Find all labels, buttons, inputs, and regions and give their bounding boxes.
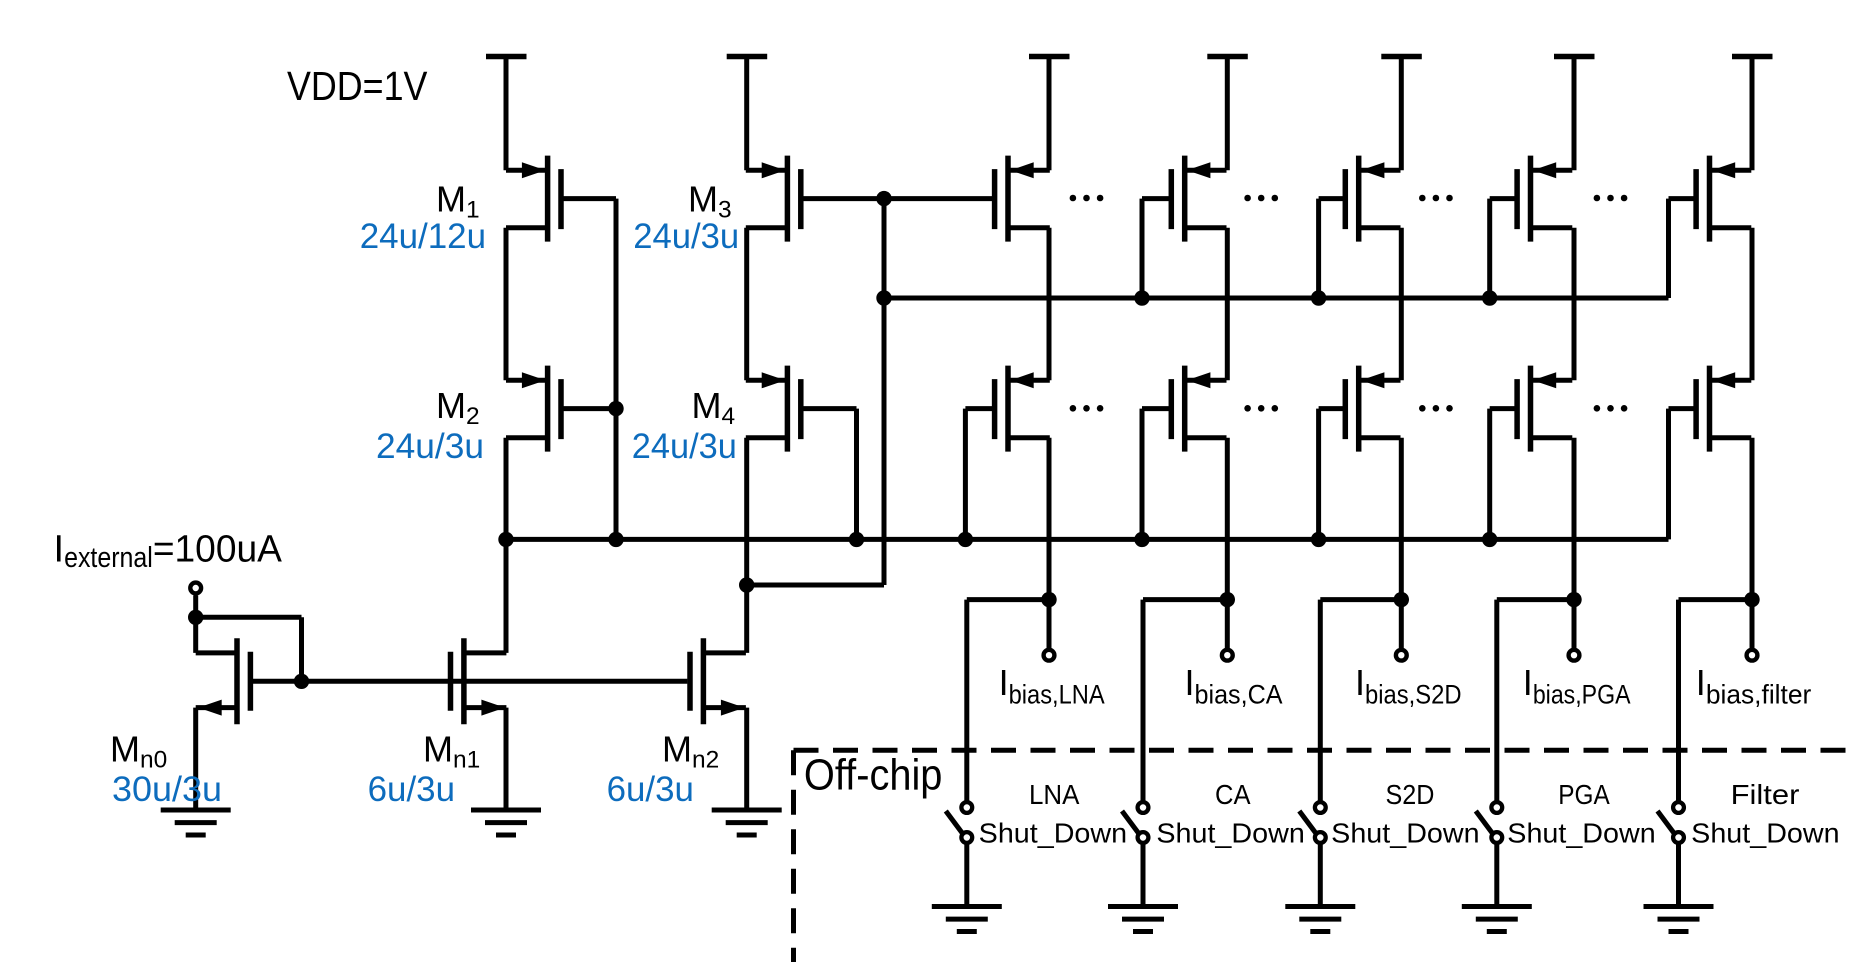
transistor PMOS cascode, branch filter xyxy=(1696,366,1751,452)
wire Mn1 source to ground xyxy=(504,708,509,810)
wire cascode gate stub branch PGA xyxy=(1487,409,1492,540)
wire M2 drain down to bias bus and Mn1 drain (x=506) xyxy=(504,438,509,653)
junction M2 drain on bias bus xyxy=(498,532,513,547)
svg-text:24u/3u: 24u/3u xyxy=(632,427,737,466)
transistor M3 (PMOS 24u/3u) xyxy=(746,156,801,242)
wire top mirror drain to cascode source branch LNA xyxy=(1047,228,1052,380)
svg-text:Shut_Down: Shut_Down xyxy=(1691,818,1839,849)
svg-text:24u/3u: 24u/3u xyxy=(633,217,739,256)
wire M4 gate to right xyxy=(803,406,857,411)
junction Iexternal node xyxy=(188,610,203,625)
wire Iexternal down to Mn0 drain xyxy=(193,595,198,653)
wire gate stub top mirror branch PGA xyxy=(1487,199,1492,298)
junction M4 drain / Mn2 drain node xyxy=(739,577,754,592)
transistor PMOS mirror top, branch PGA xyxy=(1517,156,1572,242)
wire M1/M2 gate drop (x=616) xyxy=(614,199,619,540)
wire cascode gate bias bus (y=539) xyxy=(506,537,1669,542)
junction output node branch S2D xyxy=(1394,592,1409,607)
wire top mirror drain to cascode source branch filter xyxy=(1750,228,1755,380)
terminal Ibias,PGA output pin xyxy=(1569,650,1580,661)
wire Iexternal node to gate drop xyxy=(196,615,302,620)
ellipsis dots cascode row group 3 xyxy=(1419,405,1453,412)
power VDD rail branch LNA xyxy=(1029,57,1070,171)
transistor M1 (PMOS 24u/12u) xyxy=(506,156,561,242)
wire top mirror drain to cascode source branch S2D xyxy=(1399,228,1404,380)
wire Mn0 source to ground xyxy=(193,708,198,810)
wire cascode gate lead branch PGA xyxy=(1490,406,1519,411)
transistor M4 (PMOS 24u/3u) xyxy=(746,366,801,452)
power VDD rail branch S2D xyxy=(1381,57,1422,171)
wire cascode gate stub branch filter xyxy=(1666,409,1671,540)
transistor PMOS mirror top, branch S2D xyxy=(1345,156,1400,242)
power VDD rail branch CA xyxy=(1207,57,1248,171)
switch Shut_Down branch filter xyxy=(1658,600,1684,907)
junction output node branch PGA xyxy=(1566,592,1581,607)
transistor Mn0 (NMOS 30u/3u) xyxy=(196,638,251,724)
transistor PMOS mirror top, branch CA xyxy=(1171,156,1226,242)
power VDD rail for M1 xyxy=(486,57,527,171)
junction cascode gate stub branch PGA on bias bus xyxy=(1482,532,1497,547)
wire M4 gate drop (x=856.5) xyxy=(854,409,859,540)
junction gate stub branch S2D on top bus xyxy=(1311,290,1326,305)
wire top mirror drain to cascode source branch PGA xyxy=(1572,228,1577,380)
wire M3 gate to first mirror gate (y=199) xyxy=(803,196,993,201)
wire cascode drain down to output branch LNA xyxy=(1047,438,1052,648)
wire top mirror gate lead branch CA xyxy=(1142,196,1173,201)
ground switch branch PGA xyxy=(1462,907,1532,932)
svg-text:Shut_Down: Shut_Down xyxy=(1507,818,1655,849)
wire cascode drain down to output branch S2D xyxy=(1399,438,1404,648)
ellipsis dots cascode row group 1 xyxy=(1070,405,1104,412)
svg-text:Off-chip: Off-chip xyxy=(804,751,943,800)
wire M4 drain down to Mn2 drain (x=747) xyxy=(744,438,749,653)
switch Shut_Down branch PGA xyxy=(1476,600,1502,907)
wire gate stub top mirror branch filter (bus end) xyxy=(1666,199,1671,298)
wire cascode drain down to output branch CA xyxy=(1225,438,1230,648)
svg-text:VDD=1V: VDD=1V xyxy=(287,63,428,109)
ellipsis dots top row group 2 xyxy=(1244,195,1278,202)
transistor PMOS mirror top, branch filter xyxy=(1696,156,1751,242)
ellipsis dots cascode row group 2 xyxy=(1244,405,1278,412)
transistor PMOS mirror top, branch LNA xyxy=(995,156,1050,242)
junction cascode gate stub branch LNA on bias bus xyxy=(958,532,973,547)
svg-text:Shut_Down: Shut_Down xyxy=(979,818,1127,849)
transistor PMOS cascode, branch LNA xyxy=(995,366,1050,452)
transistor PMOS cascode, branch CA xyxy=(1171,366,1226,452)
wire top mirror gate bus (y=298) xyxy=(884,296,1669,301)
wire output node to switch branch S2D xyxy=(1320,597,1401,602)
power VDD rail for M3 xyxy=(727,57,768,171)
svg-text:CA: CA xyxy=(1215,779,1251,810)
junction top mirror gate bus start xyxy=(876,290,891,305)
ground switch branch S2D xyxy=(1285,907,1355,932)
wire M3 drain to M4 source (x=747) xyxy=(744,228,749,380)
wire cascode gate stub branch LNA xyxy=(963,409,968,540)
wire cascode gate lead branch filter xyxy=(1669,406,1699,411)
svg-text:Shut_Down: Shut_Down xyxy=(1331,818,1479,849)
ellipsis dots top row group 4 xyxy=(1594,195,1628,202)
wire cascode gate stub branch CA xyxy=(1140,409,1145,540)
wire cascode drain down to output branch filter xyxy=(1750,438,1755,648)
transistor M2 (PMOS 24u/3u) xyxy=(506,366,561,452)
wire NMOS mirror gate bus (y=681) xyxy=(253,679,687,684)
transistor PMOS cascode, branch S2D xyxy=(1345,366,1400,452)
ground Mn0 xyxy=(161,810,231,835)
switch Shut_Down branch CA xyxy=(1122,600,1148,907)
wire cascode gate lead branch LNA xyxy=(965,406,996,411)
wire top mirror gate lead branch PGA xyxy=(1490,196,1519,201)
switch Shut_Down branch S2D xyxy=(1299,600,1325,907)
wire M1 drain to M2 source (x=506) xyxy=(504,228,509,380)
junction gate stub branch CA on top bus xyxy=(1134,290,1149,305)
wire top mirror gate lead branch S2D xyxy=(1319,196,1348,201)
wire Mn0 diode connection drop (x=301.5) xyxy=(299,617,304,681)
dashed off-chip boundary vertical xyxy=(791,750,796,962)
junction cascode gate stub branch CA on bias bus xyxy=(1134,532,1149,547)
dashed off-chip boundary horizontal xyxy=(794,748,1858,753)
junction Mn0 gate node xyxy=(294,674,309,689)
transistor PMOS cascode, branch PGA xyxy=(1517,366,1572,452)
wire output node to switch branch PGA xyxy=(1497,597,1574,602)
junction gate drop on bias bus xyxy=(608,532,623,547)
svg-text:6u/3u: 6u/3u xyxy=(607,770,694,809)
junction M4 gate on bias bus xyxy=(849,532,864,547)
ground switch branch LNA xyxy=(932,907,1002,932)
ellipsis dots cascode row group 4 xyxy=(1594,405,1628,412)
svg-text:24u/12u: 24u/12u xyxy=(360,217,486,256)
terminal Iexternal input pin xyxy=(190,583,201,594)
power VDD rail branch PGA xyxy=(1554,57,1595,171)
svg-text:6u/3u: 6u/3u xyxy=(368,770,455,809)
ground switch branch CA xyxy=(1108,907,1178,932)
junction M3 gate node xyxy=(876,191,891,206)
terminal Ibias,CA output pin xyxy=(1222,650,1233,661)
switch Shut_Down branch LNA xyxy=(946,600,972,907)
terminal Ibias,filter output pin xyxy=(1747,650,1758,661)
wire M4 drain node to gate drop (y=585) xyxy=(747,583,884,588)
wire gate stub top mirror branch CA xyxy=(1140,199,1145,298)
junction cascode gate stub branch S2D on bias bus xyxy=(1311,532,1326,547)
wire output node to switch branch CA xyxy=(1143,597,1227,602)
junction output node branch LNA xyxy=(1041,592,1056,607)
svg-text:S2D: S2D xyxy=(1386,779,1435,810)
svg-text:Shut_Down: Shut_Down xyxy=(1156,818,1304,849)
wire gate stub top mirror branch S2D xyxy=(1316,199,1321,298)
wire M2 gate to junction xyxy=(561,406,616,411)
ellipsis dots top row group 1 xyxy=(1070,195,1104,202)
wire cascode gate lead branch S2D xyxy=(1319,406,1348,411)
wire M3 gate node drop (x=884) xyxy=(882,199,887,585)
wire output node to switch branch filter xyxy=(1679,597,1753,602)
power VDD rail branch filter xyxy=(1732,57,1773,171)
wire Mn2 source to ground xyxy=(744,708,749,810)
svg-text:PGA: PGA xyxy=(1558,779,1610,810)
junction output node branch CA xyxy=(1220,592,1235,607)
wire output node to switch branch LNA xyxy=(967,597,1049,602)
wire cascode drain down to output branch PGA xyxy=(1572,438,1577,648)
svg-text:LNA: LNA xyxy=(1029,779,1080,810)
wire M1 gate to right xyxy=(561,196,616,201)
transistor Mn2 (NMOS 6u/3u) xyxy=(690,638,746,724)
junction gate stub branch PGA on top bus xyxy=(1482,290,1497,305)
ground Mn2 xyxy=(712,810,782,835)
wire top mirror drain to cascode source branch CA xyxy=(1225,228,1230,380)
transistor Mn1 (NMOS 6u/3u) xyxy=(451,638,507,724)
wire cascode gate stub branch S2D xyxy=(1316,409,1321,540)
terminal Ibias,S2D output pin xyxy=(1396,650,1407,661)
svg-text:24u/3u: 24u/3u xyxy=(376,427,484,466)
ellipsis dots top row group 3 xyxy=(1419,195,1453,202)
junction output node branch filter xyxy=(1744,592,1759,607)
svg-text:30u/3u: 30u/3u xyxy=(112,770,222,809)
wire cascode gate lead branch CA xyxy=(1142,406,1173,411)
junction M1-M2 gates xyxy=(608,401,623,416)
svg-text:Filter: Filter xyxy=(1731,779,1800,810)
ground switch branch filter xyxy=(1644,907,1714,932)
ground Mn1 xyxy=(471,810,541,835)
terminal Ibias,LNA output pin xyxy=(1044,650,1055,661)
wire top mirror gate lead branch filter xyxy=(1669,196,1699,201)
